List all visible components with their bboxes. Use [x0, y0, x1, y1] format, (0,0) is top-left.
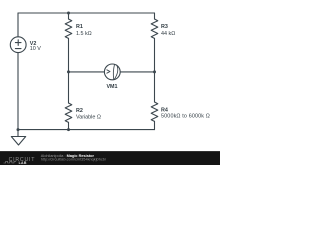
wire R1 top lead [68, 13, 70, 19]
node C junction dot (R3/R4/VM1) [153, 70, 156, 73]
voltmeter VM1 circle [104, 64, 120, 80]
node D junction dot (R2 bottom rail) [67, 128, 70, 131]
wire R2 bottom lead [68, 122, 70, 129]
svg-text:R2: R2 [76, 108, 83, 114]
voltage source V2 circle [10, 37, 26, 53]
voltmeter VM1 needle arc right [114, 65, 118, 80]
svg-text:5000kΩ to 6000k Ω: 5000kΩ to 6000k Ω [161, 113, 210, 119]
svg-text:http://circuitlab.com/cmt354kn: http://circuitlab.com/cmt354knqkj0hcb/ [41, 157, 107, 161]
wire R4 top lead [154, 72, 156, 102]
ground symbol stub [17, 130, 19, 137]
wire V2 top lead [17, 13, 19, 37]
wire middle net left (node B to VM1) [69, 71, 105, 73]
voltmeter VM1 arrow glyph [107, 70, 110, 73]
svg-text:R3: R3 [161, 24, 168, 30]
svg-text:Variable Ω: Variable Ω [76, 114, 101, 120]
svg-text:LAB: LAB [19, 161, 27, 165]
svg-text:10 V: 10 V [30, 46, 41, 52]
node B junction dot (R1/R2/VM1) [67, 70, 70, 73]
wire V2 bottom lead [17, 53, 19, 130]
voltage source V2 minus sign [15, 48, 21, 50]
voltage source V2 plus sign [15, 40, 21, 46]
resistor R1 body [65, 19, 72, 38]
ground symbol triangle [11, 137, 25, 146]
wire middle net right (VM1 to node C) [120, 71, 154, 73]
footer watermark bar [0, 151, 220, 165]
svg-text:R1: R1 [76, 24, 83, 30]
resistor R3 body [151, 19, 158, 38]
footer CircuitLab logo waveform [4, 161, 17, 163]
voltmeter VM1 needle arc left [113, 65, 114, 80]
resistor R4 body [151, 102, 158, 121]
wire R3 bottom lead to node C [154, 38, 156, 72]
wire bottom net (ground rail) [18, 129, 155, 131]
wire R3 top lead [154, 13, 156, 19]
svg-text:VM1: VM1 [106, 84, 117, 90]
wire R4 bottom lead [154, 121, 156, 129]
wire R2 top lead [68, 72, 70, 103]
wire top net (V+ rail) [18, 12, 155, 14]
node GND junction dot [17, 128, 20, 131]
resistor R2 body [65, 103, 72, 122]
svg-text:44 kΩ: 44 kΩ [161, 31, 175, 37]
node A junction dot (top, R1/V2 rail) [67, 12, 70, 15]
svg-text:1.5 kΩ: 1.5 kΩ [76, 31, 92, 37]
wire R1 bottom lead to node B [68, 38, 70, 72]
